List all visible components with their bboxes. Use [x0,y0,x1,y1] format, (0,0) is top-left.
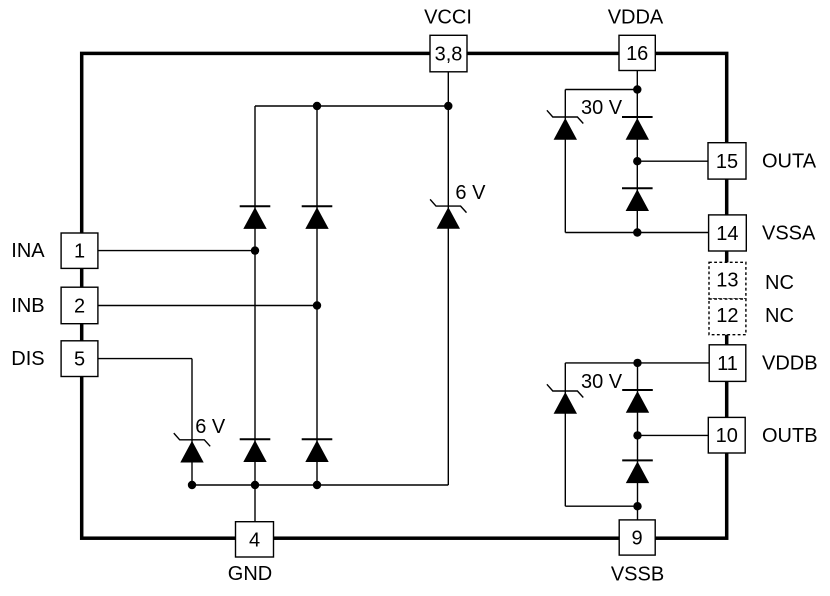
wire VSSA to pin 14 [565,232,708,234]
svg-text:VDDA: VDDA [608,6,664,28]
wire VSSB jumper [565,505,637,507]
wire OUTA to pin 15 [637,160,708,162]
svg-text:6 V: 6 V [455,182,486,204]
pin 11 (VDDB) box [709,345,746,382]
wire branch INB vertical [316,106,318,485]
diode D11 OUTB upper [622,390,653,413]
wire VDDB to pin 11 [565,362,709,364]
zener D7 30V VDDA clamp [547,110,583,139]
wire zener D10 branch vertical [564,363,566,506]
pin 1 (INA) box [61,233,98,268]
wire VCCI top rail horizontal [255,105,448,107]
diode D9 OUTA lower [622,188,653,211]
junction dot VSSA node [633,228,641,236]
zener D4 6V DIS clamp [174,433,210,462]
pin 9 (VSSB) box [619,520,655,555]
svg-text:VSSA: VSSA [762,223,816,245]
svg-text:5: 5 [74,349,85,371]
svg-text:9: 9 [631,528,642,550]
svg-text:NC: NC [765,305,794,327]
diode D12 OUTB lower [622,460,653,483]
junction dot top rail / INB branch [313,102,321,110]
svg-text:3,8: 3,8 [435,44,463,66]
wire DIS pin5 horizontal [98,358,192,360]
wire GND drop to pin 4 [254,485,256,523]
svg-text:1: 1 [74,241,85,263]
wire GND bottom rail horizontal [192,484,448,486]
junction dot INB node [313,301,321,309]
svg-text:11: 11 [717,353,738,375]
junction dot OUTB node [633,431,641,439]
junction dot bottom rail left [188,481,196,489]
wire DIS vertical to zener D4 [191,359,193,485]
pin 5 (DIS) box [61,341,98,377]
svg-text:VDDB: VDDB [762,353,818,375]
junction dot VSSB node [633,502,641,510]
wire branch INA vertical [254,106,256,485]
junction dot bottom rail / GND [251,481,259,489]
junction dot bottom rail / INB branch [313,481,321,489]
zener D3 6V VCCI clamp [430,199,466,228]
junction dot VDDA node [633,85,641,93]
svg-text:10: 10 [716,425,738,447]
diode D6 lower INB ESD [302,439,333,462]
IC boundary rectangle [82,53,727,538]
pin 13 (NC) dashed box [709,262,746,299]
svg-text:INA: INA [11,240,45,262]
zener D10 30V VDDB clamp [547,384,583,413]
diode D8 OUTA upper [622,117,653,140]
pin 4 (GND) box [236,522,274,557]
svg-text:4: 4 [249,529,260,551]
svg-text:14: 14 [716,223,738,245]
junction dot OUTA node [633,157,641,165]
pin 15 (OUTA) box [708,143,746,179]
pin 16 (VDDA) box [619,35,655,70]
svg-text:VCCI: VCCI [424,7,472,29]
svg-text:16: 16 [626,43,648,65]
svg-text:6 V: 6 V [195,416,226,438]
wire diode chain B vertical [637,363,639,520]
svg-text:OUTA: OUTA [762,150,817,172]
pin 2 (INB) box [61,287,98,324]
wire INB pin2 to node B [98,305,317,307]
diode D5 lower INA ESD [240,439,271,462]
wire VDDA stub [636,71,638,90]
diode D2 upper INB ESD [302,206,333,229]
junction dot VDDB node [633,359,641,367]
svg-text:2: 2 [74,296,85,318]
wire VDDA jumper to zener D7 [565,89,637,91]
wire zener D7 branch vertical [564,90,566,233]
svg-text:DIS: DIS [11,348,44,370]
pin 3,8 (VCCI) box [430,35,467,72]
svg-text:13: 13 [716,270,738,292]
diode D1 upper INA ESD [240,206,271,229]
wire OUTB to pin 10 [638,434,709,436]
svg-text:30 V: 30 V [581,371,623,393]
svg-text:12: 12 [716,305,738,327]
junction dot INA node [251,246,259,254]
pin 14 (VSSA) box [709,215,747,251]
svg-text:15: 15 [716,151,738,173]
svg-text:30 V: 30 V [581,97,623,119]
wire VCCI branch vertical [447,72,449,485]
junction dot top rail / VCCI branch [444,102,452,110]
svg-text:NC: NC [765,272,794,294]
svg-text:GND: GND [228,563,272,585]
pin 10 (OUTB) box [708,417,745,453]
svg-text:OUTB: OUTB [762,425,818,447]
svg-text:VSSB: VSSB [611,564,664,586]
wire diode chain A vertical [636,90,638,233]
svg-text:INB: INB [11,295,44,317]
pin 12 (NC) dashed box [709,299,746,335]
wire INA pin1 to node A [98,250,255,252]
